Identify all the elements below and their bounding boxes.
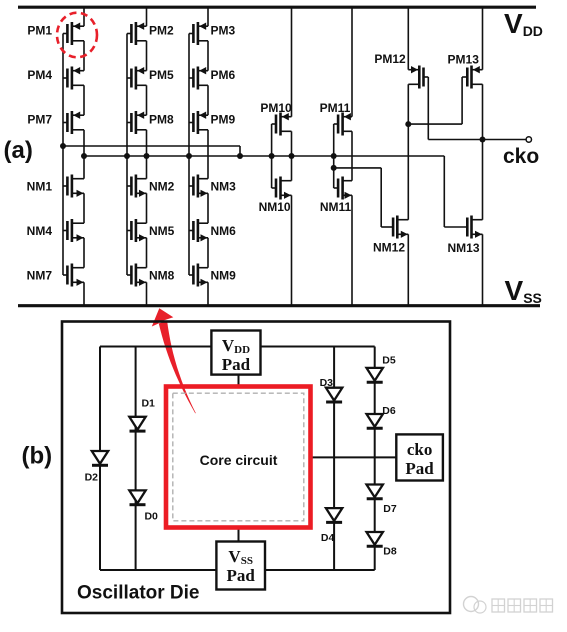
svg-text:PM8: PM8 [149,113,174,127]
svg-text:Core circuit: Core circuit [200,452,278,468]
svg-text:PM3: PM3 [211,24,236,38]
svg-text:NM4: NM4 [27,224,53,238]
svg-text:PM6: PM6 [211,68,236,82]
svg-text:D2: D2 [85,471,99,483]
svg-text:NM8: NM8 [149,268,175,282]
svg-text:NM12: NM12 [373,241,405,255]
svg-text:PM12: PM12 [374,52,406,66]
svg-text:D3: D3 [320,377,334,389]
svg-text:Pad: Pad [227,566,256,585]
svg-text:NM3: NM3 [211,179,237,193]
svg-text:D5: D5 [382,354,396,366]
svg-text:cko: cko [407,440,433,459]
svg-text:PM10: PM10 [260,101,292,115]
svg-text:D6: D6 [382,405,396,417]
svg-text:PM11: PM11 [320,101,351,115]
svg-text:NM2: NM2 [149,179,175,193]
svg-text:cko: cko [503,145,539,168]
svg-text:NM6: NM6 [211,224,237,238]
svg-text:PM1: PM1 [27,24,52,38]
svg-text:D0: D0 [144,510,158,522]
svg-text:NM1: NM1 [27,179,53,193]
svg-text:PM9: PM9 [211,113,236,127]
svg-text:NM7: NM7 [27,268,53,282]
svg-text:D4: D4 [321,532,335,544]
svg-text:NM11: NM11 [320,200,352,214]
svg-text:Oscillator Die: Oscillator Die [77,583,200,604]
svg-text:PM2: PM2 [149,24,174,38]
svg-text:NM5: NM5 [149,224,175,238]
svg-text:NM13: NM13 [447,241,479,255]
svg-text:D8: D8 [383,546,397,558]
svg-text:PM7: PM7 [27,113,52,127]
svg-text:(a): (a) [4,137,33,164]
svg-text:Pad: Pad [405,459,434,478]
svg-text:NM9: NM9 [211,268,237,282]
svg-text:NM10: NM10 [259,200,291,214]
svg-text:PM13: PM13 [448,53,480,67]
svg-text:PM5: PM5 [149,68,174,82]
svg-text:PM4: PM4 [27,68,52,82]
svg-text:D1: D1 [141,398,155,410]
svg-text:D7: D7 [383,503,397,515]
svg-text:Pad: Pad [222,355,251,374]
svg-text:(b): (b) [22,442,53,469]
